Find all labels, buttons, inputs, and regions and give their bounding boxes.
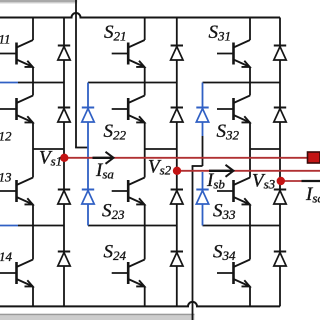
svg-text:Vs2: Vs2 — [148, 157, 172, 178]
svg-text:S11: S11 — [0, 25, 11, 47]
svg-text:Isc: Isc — [305, 184, 320, 206]
svg-text:Vs3: Vs3 — [252, 171, 276, 192]
svg-text:S34: S34 — [213, 242, 236, 264]
svg-text:S32: S32 — [217, 121, 240, 143]
svg-text:Vs1: Vs1 — [39, 148, 62, 169]
svg-text:S31: S31 — [209, 22, 232, 44]
svg-text:S22: S22 — [104, 121, 127, 143]
svg-text:S21: S21 — [104, 22, 127, 44]
svg-text:S24: S24 — [104, 242, 127, 264]
svg-text:Isa: Isa — [95, 160, 114, 182]
svg-text:S12: S12 — [0, 122, 12, 144]
svg-text:Isb: Isb — [206, 170, 225, 192]
svg-text:S23: S23 — [102, 201, 125, 223]
svg-text:S13: S13 — [0, 163, 12, 185]
svg-text:S33: S33 — [213, 201, 236, 223]
svg-text:S14: S14 — [0, 243, 13, 265]
